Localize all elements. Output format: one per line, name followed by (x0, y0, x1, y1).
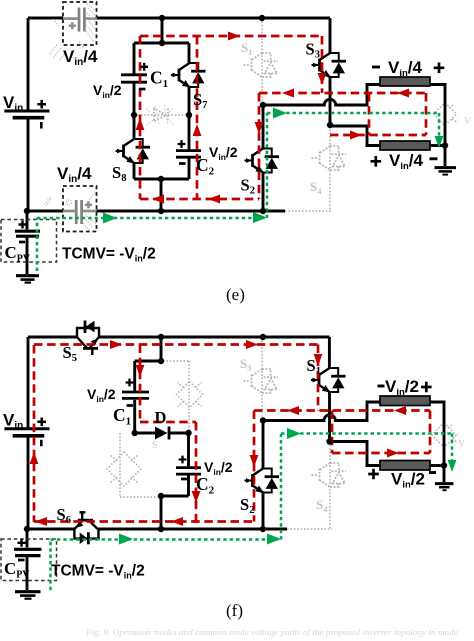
svg-text:Vin/4: Vin/4 (63, 47, 98, 68)
svg-text:D: D (155, 408, 167, 427)
svg-text:S4: S4 (310, 179, 322, 196)
svg-text:Vin/4: Vin/4 (389, 151, 424, 172)
svg-text:Vin/2: Vin/2 (87, 386, 116, 404)
svg-text:S2: S2 (240, 495, 254, 516)
svg-text:V: V (464, 116, 472, 127)
svg-text:TCMV= -Vin/2: TCMV= -Vin/2 (62, 246, 156, 264)
svg-text:Fig. 9. Operation modes and co: Fig. 9. Operation modes and common mode … (85, 628, 459, 637)
svg-text:Vin: Vin (3, 411, 23, 432)
svg-text:C2: C2 (196, 474, 215, 497)
svg-text:(e): (e) (226, 285, 245, 304)
svg-text:S3: S3 (240, 356, 251, 373)
svg-text:S2: S2 (241, 176, 255, 197)
svg-text:S3: S3 (306, 40, 320, 61)
svg-text:TCMV= -Vin/2: TCMV= -Vin/2 (51, 563, 145, 581)
svg-text:Vin: Vin (3, 93, 23, 114)
svg-text:S4: S4 (316, 497, 328, 514)
svg-text:Vin/4: Vin/4 (388, 58, 423, 79)
svg-text:Vin/4: Vin/4 (57, 164, 92, 185)
svg-text:Vin/2: Vin/2 (385, 377, 419, 398)
svg-text:C1: C1 (150, 68, 168, 91)
svg-text:S5: S5 (63, 343, 77, 364)
svg-text:S: S (152, 440, 158, 451)
svg-text:(f): (f) (226, 601, 243, 620)
svg-text:S1: S1 (241, 40, 252, 57)
svg-text:S8: S8 (112, 163, 126, 184)
svg-text:Vin/2: Vin/2 (391, 470, 425, 491)
svg-text:V: V (458, 439, 466, 450)
svg-text:Vin/2: Vin/2 (93, 82, 122, 100)
svg-text:S7: S7 (193, 90, 207, 111)
svg-text:Vin/2: Vin/2 (209, 144, 238, 162)
svg-text:S6: S6 (57, 505, 71, 526)
svg-text:C1: C1 (113, 405, 131, 428)
